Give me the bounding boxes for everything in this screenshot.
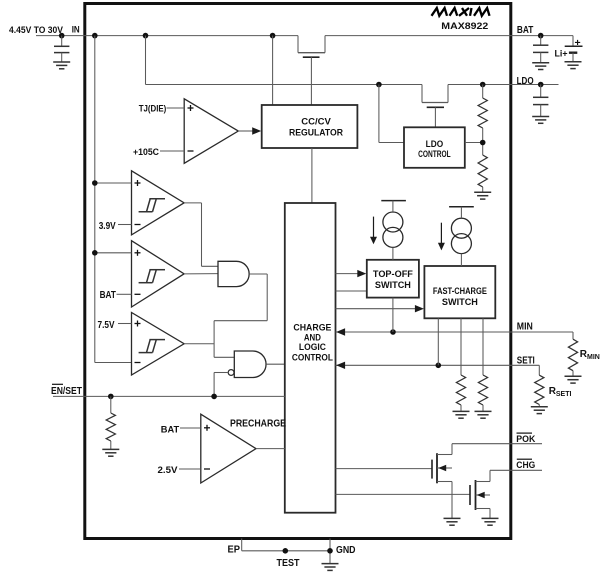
svg-text:+: + xyxy=(575,37,581,49)
svg-text:Li+: Li+ xyxy=(555,49,568,60)
svg-text:TEST: TEST xyxy=(277,558,300,569)
svg-text:7.5V: 7.5V xyxy=(98,320,115,331)
svg-text:TJ(DIE): TJ(DIE) xyxy=(139,104,167,115)
svg-text:CC/CV: CC/CV xyxy=(301,117,331,128)
svg-text:LDO: LDO xyxy=(517,76,534,87)
svg-text:CHG: CHG xyxy=(516,460,535,471)
svg-text:MAX8922: MAX8922 xyxy=(441,21,488,32)
svg-text:LDO: LDO xyxy=(426,139,444,150)
svg-text:TOP-OFF: TOP-OFF xyxy=(373,269,413,279)
svg-text:REGULATOR: REGULATOR xyxy=(289,128,343,139)
svg-text:+105C: +105C xyxy=(133,147,159,158)
svg-text:POK: POK xyxy=(516,434,535,445)
svg-text:2.5V: 2.5V xyxy=(158,465,179,476)
svg-text:SWITCH: SWITCH xyxy=(442,297,478,307)
svg-text:SETI: SETI xyxy=(517,356,535,367)
svg-text:LOGIC: LOGIC xyxy=(299,342,326,352)
svg-text:MIN: MIN xyxy=(517,321,533,332)
svg-text:BAT: BAT xyxy=(517,25,534,36)
svg-text:EP: EP xyxy=(228,545,241,556)
svg-text:BAT: BAT xyxy=(161,425,180,436)
svg-text:GND: GND xyxy=(336,545,356,556)
svg-text:SWITCH: SWITCH xyxy=(375,280,411,290)
svg-text:FAST-CHARGE: FAST-CHARGE xyxy=(433,286,487,296)
svg-text:BAT: BAT xyxy=(100,290,116,301)
svg-text:CHARGE: CHARGE xyxy=(293,322,331,332)
svg-text:MIN: MIN xyxy=(587,354,600,361)
svg-text:3.9V: 3.9V xyxy=(99,221,116,232)
svg-text:PRECHARGE: PRECHARGE xyxy=(230,418,286,429)
svg-text:4.45V TO 30V: 4.45V TO 30V xyxy=(9,25,64,35)
svg-text:IN: IN xyxy=(72,25,80,36)
svg-text:CONTROL: CONTROL xyxy=(418,149,451,160)
svg-text:CONTROL: CONTROL xyxy=(292,352,333,362)
svg-text:SETI: SETI xyxy=(556,391,572,398)
svg-text:EN/SET: EN/SET xyxy=(51,386,82,397)
